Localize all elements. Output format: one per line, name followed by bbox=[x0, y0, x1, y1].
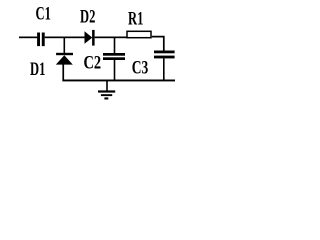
svg-text:D1: D1 bbox=[30, 60, 45, 80]
svg-text:C2: C2 bbox=[84, 52, 102, 73]
svg-text:D2: D2 bbox=[80, 7, 95, 27]
wire node A stem down to D1 bbox=[64, 37, 66, 53]
svg-text:C1: C1 bbox=[36, 4, 51, 24]
capacitor C1 bbox=[37, 33, 40, 47]
wire C2 down to ground rail bbox=[114, 60, 116, 81]
ground rail wire bbox=[62, 80, 175, 82]
svg-text:R1: R1 bbox=[128, 9, 143, 29]
wire C3 down to ground rail bbox=[163, 58, 165, 81]
capacitor C3 bbox=[154, 51, 175, 59]
wire D1 down to ground rail bbox=[62, 64, 64, 81]
diode D1 bbox=[56, 53, 73, 65]
ground symbol bbox=[98, 81, 115, 100]
diode D2 bbox=[85, 30, 95, 46]
capacitor C2 bbox=[103, 53, 125, 60]
wire D2 to R1 bbox=[95, 37, 128, 39]
wire input left to C1 bbox=[19, 37, 37, 39]
wire R1 to corner and down to C3 bbox=[152, 37, 164, 51]
resistor R1 bbox=[127, 31, 151, 37]
svg-text:C3: C3 bbox=[132, 58, 149, 79]
wire node B stem down to C2 bbox=[114, 37, 116, 53]
wire C1 to D2 bbox=[45, 37, 85, 39]
